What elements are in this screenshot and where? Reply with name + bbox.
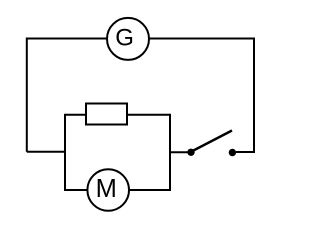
wire motor branch right <box>129 189 170 191</box>
wire motor branch left <box>65 189 87 191</box>
wire resistor branch right <box>127 114 170 116</box>
wire resistor branch left <box>65 114 86 116</box>
wire top left (from top-left corner to galvanometer) <box>27 39 107 152</box>
switch contact node right <box>229 149 236 156</box>
wire bottom left (outer loop to left junction) <box>27 151 66 153</box>
node left junction (vertical bus) <box>64 114 66 191</box>
svg-text:M: M <box>96 175 117 203</box>
motor M <box>87 169 129 211</box>
wire switch to parallel-junction right <box>170 151 188 153</box>
resistor R1 <box>86 104 127 125</box>
wire top right (from galvanometer to right vertical drop) <box>149 39 254 153</box>
switch blade <box>192 131 233 152</box>
galvanometer G <box>107 18 149 60</box>
svg-text:G: G <box>115 25 134 52</box>
switch S1 (open) <box>187 131 236 157</box>
node right junction (vertical bus) <box>169 114 171 191</box>
switch contact node left <box>187 149 194 156</box>
